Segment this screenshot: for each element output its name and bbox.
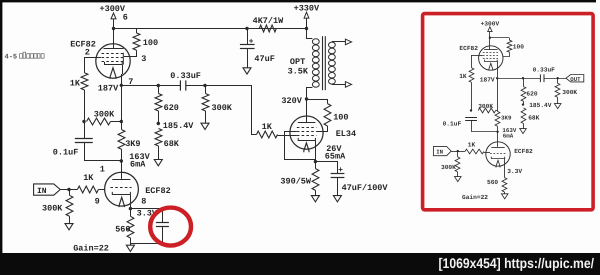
svg-text:300K: 300K [478, 103, 493, 110]
svg-text:65mA: 65mA [325, 152, 346, 162]
svg-text:IN: IN [436, 149, 443, 156]
svg-text:0.33uF: 0.33uF [533, 67, 556, 74]
svg-text:300K: 300K [212, 103, 233, 113]
svg-text:300K: 300K [562, 89, 577, 96]
tube EL34 plate [298, 122, 316, 124]
resistor 1K EL34 grid [251, 131, 297, 138]
svg-text:560: 560 [487, 179, 498, 186]
tube V2 grid dashes [110, 187, 131, 189]
OPT primary [307, 29, 320, 100]
svg-text:1K: 1K [83, 173, 94, 183]
wire EL34 cathode [315, 140, 317, 161]
svg-text:300K: 300K [94, 109, 115, 119]
wire plate lead EL34 [306, 99, 308, 123]
tube V2 plate [112, 179, 130, 181]
tube EL34 heater [304, 143, 309, 152]
resistor 620 [155, 86, 162, 124]
inset resistor 560 [502, 171, 507, 194]
inset ground under 68K [520, 129, 527, 134]
tube EL34 cathode [298, 138, 315, 141]
resistor 4K7/1W [259, 25, 276, 32]
tube EL34 envelope [290, 116, 323, 149]
svg-text:2: 2 [85, 48, 90, 58]
svg-text:ECF82: ECF82 [145, 186, 171, 196]
inset ground under 300K out [554, 104, 561, 109]
power arrow +300V [111, 13, 116, 29]
inset capacitor 0.33uF [539, 74, 541, 82]
inset tube V1 [479, 46, 503, 70]
svg-text:0.1uF: 0.1uF [53, 148, 79, 158]
inset wire cathode V1 [497, 61, 499, 78]
wire IN to node [60, 189, 69, 191]
tube V1 plate lead [113, 29, 115, 49]
inset node 187V [496, 77, 498, 79]
ground under 300K input [65, 224, 73, 230]
top border strip [0, 0, 596, 2]
ground under 300K [201, 123, 209, 129]
inset resistor 1K grid [469, 55, 483, 110]
resistor 300K input [66, 190, 73, 224]
capacitor 47uF [240, 29, 255, 68]
wire V2 cathode [130, 195, 132, 209]
inset resistor 300K input [455, 151, 460, 177]
node 185.4V [157, 122, 160, 125]
inset resistor 300K out [555, 78, 560, 103]
svg-text:390/5W: 390/5W [280, 177, 312, 187]
wire coupling to EL34 branch [186, 86, 252, 135]
svg-text:100: 100 [513, 43, 524, 50]
svg-text:9: 9 [95, 196, 100, 206]
ground under 68K [154, 160, 162, 166]
svg-text:ECF82: ECF82 [459, 45, 478, 52]
wire 187V to 3K9 [121, 85, 123, 129]
svg-text:6: 6 [123, 13, 128, 23]
resistor 300K horizontal [87, 118, 122, 125]
svg-text:OUT: OUT [570, 76, 581, 83]
left border strip [0, 0, 2, 253]
note 4-5 tubes (thai) [5, 52, 45, 61]
resistor 3K9 [118, 130, 125, 162]
tube V1 heater [110, 68, 116, 79]
tube V1 cathode [105, 62, 123, 65]
tube V1 grid dashes [102, 54, 124, 62]
svg-text:320V: 320V [281, 96, 302, 106]
svg-text:620: 620 [164, 103, 179, 113]
OPT core [323, 36, 326, 90]
ground under 390/5W [311, 196, 319, 202]
svg-text:4K7/1W: 4K7/1W [253, 16, 285, 26]
svg-text:Gain=22: Gain=22 [73, 244, 109, 254]
svg-text:300K: 300K [441, 164, 456, 171]
svg-text:6mA: 6mA [503, 133, 514, 140]
bottom watermark bar [0, 253, 600, 275]
power arrow +330V [304, 12, 309, 28]
svg-text:187V: 187V [98, 84, 119, 94]
node OPT top [305, 27, 308, 30]
svg-text:300K: 300K [42, 203, 63, 213]
svg-text:ECF82: ECF82 [514, 148, 533, 155]
inset capacitor 0.1uF [465, 118, 497, 132]
tube V1 grid box edge [122, 53, 124, 65]
wire V1 cathode to node [122, 65, 124, 74]
inset wire cathode V2 [504, 159, 506, 172]
inset connector IN tag [433, 147, 451, 156]
capacitor 0.33uF [180, 80, 185, 90]
inset node 185.4V [522, 103, 524, 105]
svg-text:0.1uF: 0.1uF [443, 121, 462, 128]
inset ground under 560 [501, 194, 508, 199]
svg-text:3.5K: 3.5K [288, 66, 309, 76]
svg-text:4-5: 4-5 [5, 54, 18, 62]
svg-text:6mA: 6mA [130, 159, 146, 169]
svg-text:47uF: 47uF [254, 54, 274, 64]
inset tube V2 [486, 142, 510, 166]
node EL34 cathode [314, 160, 317, 163]
ground under 47uF [243, 68, 251, 74]
inset power arrow [488, 27, 492, 32]
svg-text:0.33uF: 0.33uF [170, 71, 201, 81]
svg-text:8: 8 [141, 196, 146, 206]
inset node input [457, 150, 459, 152]
svg-text:1K: 1K [262, 122, 273, 132]
svg-text:620: 620 [526, 90, 537, 97]
inset node 163V [496, 131, 498, 133]
tube V1 plate [104, 48, 124, 50]
svg-text:100: 100 [143, 38, 158, 48]
ground under 47uF/100V [333, 196, 341, 202]
resistor 560 [127, 209, 134, 246]
svg-text:Gain=22: Gain=22 [462, 194, 488, 201]
inset connector OUT tag [566, 75, 584, 83]
inset red frame [423, 14, 593, 210]
wire 187V node to coupling [121, 85, 180, 87]
inset ground input [455, 177, 462, 182]
svg-text:3: 3 [141, 54, 146, 64]
OPT secondary [329, 39, 352, 87]
red highlight ellipse [150, 208, 191, 246]
svg-text:ECF82: ECF82 [70, 39, 96, 49]
svg-text:185.4V: 185.4V [529, 102, 552, 109]
resistor 100 screen EL34 [307, 100, 331, 132]
tube V1 ECF82 envelope [96, 44, 130, 78]
tube EL34 grid dashes [297, 128, 317, 136]
svg-text:1K: 1K [468, 142, 476, 149]
connector IN tag [34, 184, 61, 196]
resistor 300K [202, 86, 209, 124]
svg-text:560: 560 [115, 225, 130, 235]
svg-text:IN: IN [37, 187, 47, 196]
svg-text:3.3V: 3.3V [507, 168, 522, 175]
inset wire IN [451, 151, 458, 153]
inset resistor 300K horizontal [478, 108, 497, 113]
inset wire to OUT [544, 78, 566, 80]
svg-text:3K9: 3K9 [125, 139, 140, 149]
resistor 390/5W [312, 162, 319, 196]
node 320V [305, 97, 308, 100]
svg-text:1K: 1K [459, 73, 467, 80]
svg-text:68K: 68K [164, 139, 180, 149]
ground under 560 [126, 245, 134, 251]
wire g3 to cathode [285, 132, 316, 160]
svg-text:1K: 1K [70, 79, 81, 89]
svg-text:100: 100 [333, 113, 348, 123]
svg-text:3K9: 3K9 [501, 115, 512, 122]
inset resistor 3K9 [495, 78, 500, 132]
inset resistor 68K [521, 108, 526, 129]
node cathode V2 [129, 207, 132, 210]
inset node OUT [557, 77, 559, 79]
resistor 100 screen V1 [124, 29, 140, 57]
tube V2 heater [119, 197, 124, 207]
tube V2 ECF82 envelope [105, 172, 139, 206]
wire +300V rail [114, 28, 307, 30]
capacitor 0.1uF [75, 122, 122, 161]
svg-text:1: 1 [100, 165, 105, 175]
svg-text:187V: 187V [480, 77, 495, 84]
svg-text:EL34: EL34 [336, 129, 356, 139]
inset wire rail [490, 37, 509, 39]
svg-text:47uF/100V: 47uF/100V [342, 183, 389, 193]
node 300K-H right [120, 120, 123, 123]
svg-text:[1069x454] https://upic.me/: [1069x454] https://upic.me/ [439, 255, 595, 271]
inset resistor 620 [522, 77, 524, 79]
node 300K top [203, 84, 206, 87]
inset wire coupling [497, 78, 540, 80]
node 47uF [245, 27, 248, 30]
node 300K-H left [82, 120, 85, 123]
inset resistor 1K input [458, 149, 490, 154]
node input [67, 188, 70, 191]
wire V1 grid lead [84, 57, 101, 59]
capacitor cathode bypass [130, 209, 169, 244]
inset resistor 100 [503, 38, 512, 57]
capacitor 47uF/100V [315, 162, 344, 196]
svg-text:185.4V: 185.4V [163, 121, 195, 131]
node +300V rail junction [112, 27, 115, 30]
tube V2 cathode [112, 192, 130, 195]
resistor 68K [155, 129, 162, 160]
resistor 1K grid V1 [81, 57, 88, 121]
node 620 top [157, 84, 160, 87]
node 163V [120, 159, 123, 162]
node 187V [120, 84, 123, 87]
resistor 1K input [69, 186, 105, 193]
svg-text:68K: 68K [528, 115, 539, 122]
wire plate lead V2 [121, 161, 123, 179]
inset node rail [489, 37, 491, 39]
